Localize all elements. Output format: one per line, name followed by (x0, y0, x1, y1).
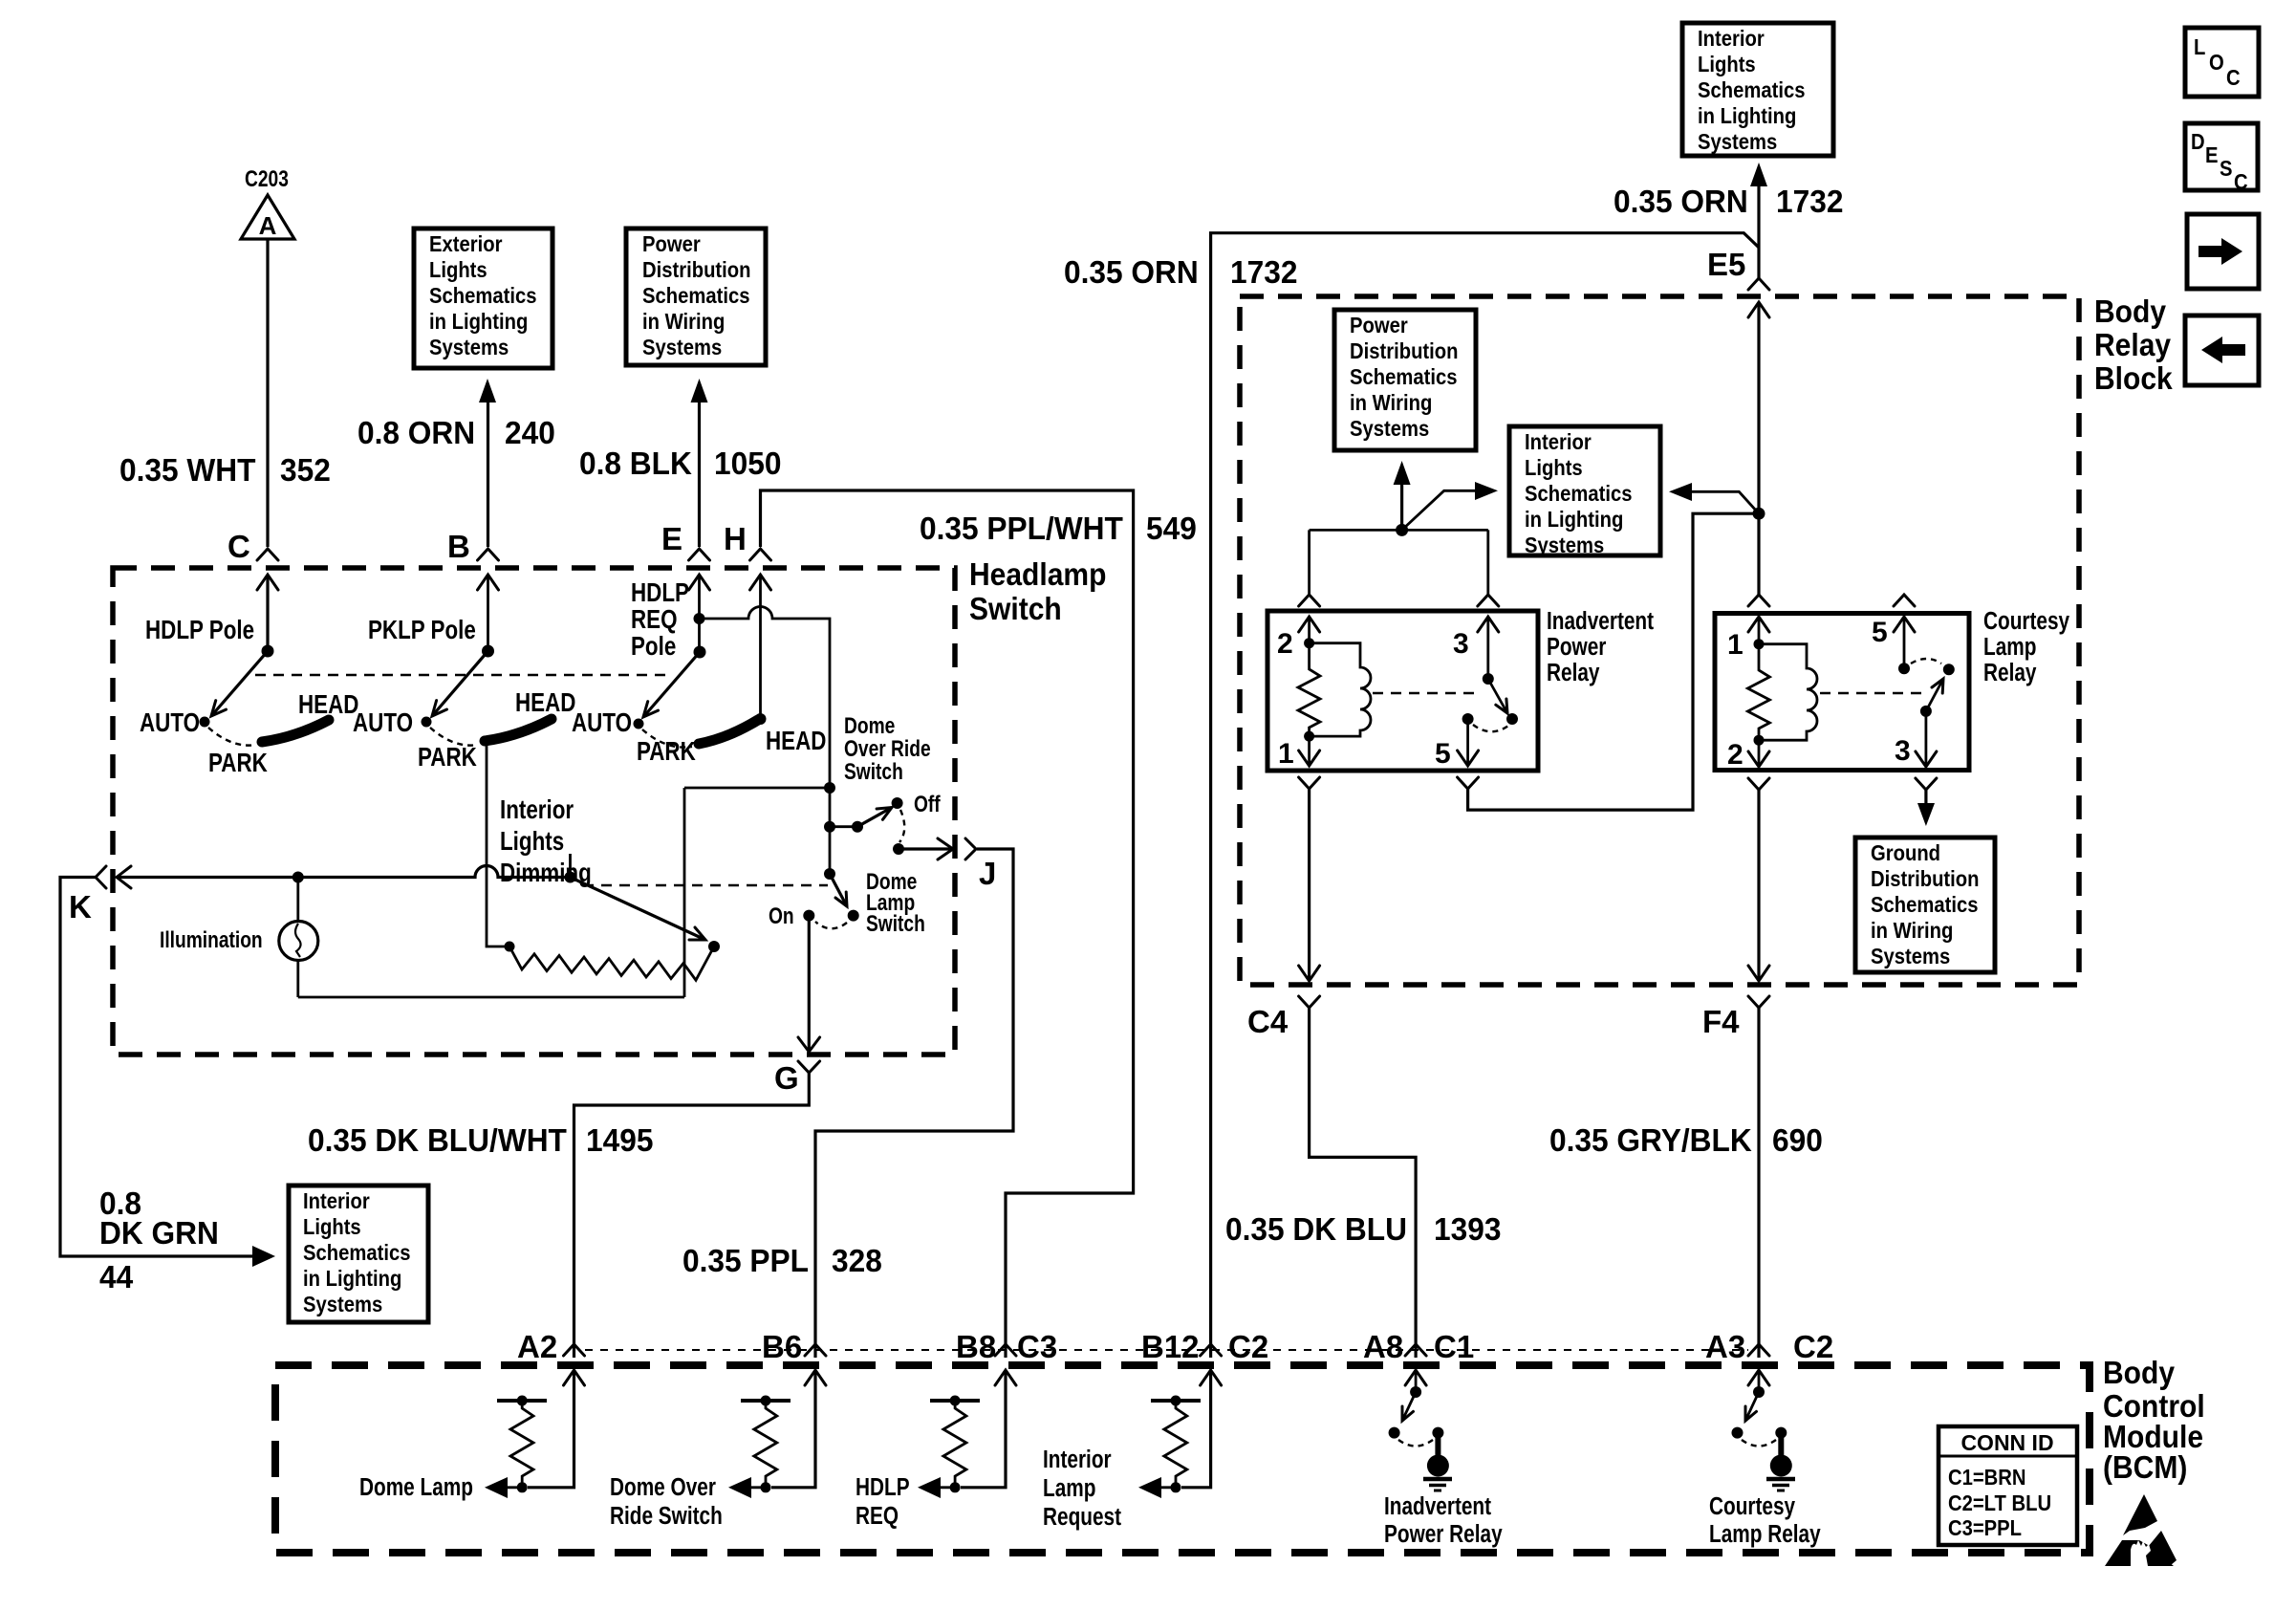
right arrow box (2187, 214, 2259, 289)
svg-text:Interior: Interior (303, 1188, 370, 1214)
svg-text:Switch: Switch (866, 910, 925, 937)
svg-text:Power: Power (642, 231, 701, 257)
inadvertent driver travel arc (1398, 1440, 1433, 1447)
left arrow box (2185, 315, 2259, 385)
svg-text:0.35 WHT: 0.35 WHT (119, 452, 256, 488)
svg-text:B6: B6 (762, 1329, 802, 1364)
wire branch arrow to middle interior lights box (1402, 482, 1498, 530)
label 1495 (586, 1122, 653, 1158)
svg-text:Distribution: Distribution (1350, 338, 1459, 364)
label 0.8 DK GRN 44 (99, 1186, 219, 1295)
wire G to A2 (574, 1073, 810, 1358)
resistor dome over ride input (741, 1396, 791, 1493)
svg-text:E: E (661, 521, 682, 556)
body control module dashed box (275, 1365, 2090, 1553)
node J chevron (965, 838, 996, 891)
wire E5 into block (1748, 302, 1769, 513)
svg-text:Power: Power (1350, 313, 1408, 338)
illumination lamp (279, 878, 318, 998)
arrow to Power Distribution box (in block) (1394, 461, 1411, 530)
dimmer wiper junction node (565, 854, 576, 883)
svg-text:Body: Body (2094, 294, 2166, 330)
svg-text:C: C (2226, 65, 2241, 91)
svg-text:0.35 PPL/WHT: 0.35 PPL/WHT (920, 511, 1123, 546)
BCM connector row dashed (585, 1349, 1748, 1351)
inadvertent driver arrow (1402, 1392, 1416, 1421)
svg-text:Lamp: Lamp (1043, 1474, 1095, 1502)
svg-text:Lights: Lights (500, 827, 564, 857)
relay pin 5 contact (1462, 713, 1474, 725)
wire interior lights feed (lamp circuit riser) (298, 788, 830, 997)
wire B12/C2 riser (0.35 ORN 1732) (1211, 233, 1759, 1358)
node dimmer right terminal (708, 941, 720, 952)
label 0.35 WHT (119, 452, 256, 488)
box Power Distribution Schematics in Wiring Systems (626, 228, 766, 365)
svg-text:0.35 GRY/BLK: 0.35 GRY/BLK (1549, 1122, 1752, 1158)
courtesy relay box (1715, 614, 1969, 771)
courtesy pin 5 contact (1898, 663, 1910, 674)
label HEAD (switch 2) (515, 688, 575, 718)
svg-text:C: C (2234, 169, 2248, 195)
label Courtesy Lamp Relay (1983, 607, 2069, 686)
svg-text:240: 240 (505, 415, 555, 450)
inadvertent power relay box (1267, 611, 1538, 771)
PKLP lever (HEAD position) (485, 719, 552, 741)
wire On contact to G (798, 916, 820, 1052)
label Inadvertent Power Relay (1384, 1492, 1503, 1548)
svg-text:0.35 DK BLU/WHT: 0.35 DK BLU/WHT (308, 1122, 567, 1158)
wire F4 to A3/C2 (1757, 1008, 1760, 1358)
label Courtesy Lamp Relay (1709, 1492, 1821, 1548)
label PARK (switch 3) (637, 737, 696, 767)
label 0.35 ORN (left) (1064, 254, 1199, 290)
label 240 (505, 415, 555, 450)
node C4 chevron (1247, 996, 1320, 1039)
node E branch (694, 613, 705, 624)
wire H to HEAD contact (750, 575, 771, 725)
label 0.8 BLK (579, 446, 693, 481)
connector C203 label (245, 165, 289, 192)
box Interior Lights Schematics in Lighting Systems (lower left) (289, 1186, 428, 1322)
relay actuation dashed link (1373, 692, 1478, 694)
label PKLP Pole (368, 616, 476, 645)
svg-text:A2: A2 (517, 1329, 557, 1364)
svg-text:Power Relay: Power Relay (1384, 1520, 1503, 1548)
node E5/F4 junction (1753, 508, 1765, 520)
label PARK (switch 1) (208, 749, 268, 778)
svg-text:Lights: Lights (1525, 455, 1583, 481)
wire K bus (illumination feed) (117, 866, 571, 889)
box Power Distribution Schematics in Wiring Systems (in block) (1334, 310, 1476, 450)
relay pin 2 entry (1277, 617, 1320, 660)
node A3/C2 (1705, 1329, 1833, 1364)
label Body Relay Block (2094, 294, 2173, 397)
dimming rheostat zigzag (509, 946, 714, 980)
courtesy pin 2 exit (1727, 739, 1769, 771)
wire E5 riser (0.35 ORN 1732) (1757, 184, 1760, 278)
svg-text:in Lighting: in Lighting (1525, 507, 1623, 533)
svg-text:Schematics: Schematics (642, 283, 749, 309)
svg-text:Interior: Interior (1525, 429, 1592, 455)
label Dome Over Ride Switch (844, 712, 931, 785)
relay pin 2 chevron (1299, 595, 1320, 606)
label 0.35 DK BLU (1225, 1211, 1407, 1247)
svg-text:C1=BRN: C1=BRN (1948, 1465, 2026, 1490)
relay pin 1 chevron (1299, 777, 1320, 789)
svg-text:Schematics: Schematics (1698, 77, 1805, 103)
svg-text:Ground: Ground (1871, 840, 1940, 866)
svg-text:3: 3 (1895, 735, 1911, 767)
courtesy pin 3 exit (1895, 711, 1937, 767)
svg-text:Inadvertent: Inadvertent (1547, 607, 1654, 635)
dome lamp switch door contact (848, 910, 859, 922)
node B12/C2 (1141, 1329, 1268, 1364)
svg-text:Schematics: Schematics (303, 1240, 410, 1266)
wire B12/C2 to interior lamp request input (1181, 1370, 1222, 1488)
courtesy pin 2 chevron (1748, 778, 1769, 790)
PKLP pole wiper arrow (432, 651, 488, 716)
label HEAD (switch 1) (298, 690, 358, 720)
box Interior Lights Schematics in Lighting Systems (middle) (1509, 426, 1660, 557)
wire relay coil feed branch (1310, 530, 1488, 595)
svg-text:HEAD: HEAD (515, 688, 575, 718)
svg-text:Systems: Systems (1698, 129, 1777, 155)
arrow to HDLP REQ (918, 1477, 955, 1498)
svg-text:Systems: Systems (429, 335, 509, 360)
arrow to Interior Lamp Request (1138, 1477, 1176, 1498)
svg-text:Systems: Systems (1525, 533, 1604, 558)
wire E entering switch (689, 575, 710, 652)
relay coil bottom node (1304, 731, 1314, 742)
svg-text:1: 1 (1727, 629, 1744, 661)
svg-text:Headlamp: Headlamp (969, 556, 1106, 593)
HDLP travel arc (208, 728, 256, 746)
svg-text:REQ: REQ (631, 605, 678, 635)
svg-text:Systems: Systems (303, 1292, 382, 1317)
dome lamp switch pivot node (824, 868, 835, 880)
svg-text:PARK: PARK (418, 743, 477, 772)
svg-text:Body: Body (2103, 1355, 2175, 1391)
courtesy coil (1759, 644, 1817, 741)
wire pin 5 to E5/F4 junction (1468, 513, 1759, 810)
svg-text:L: L (2194, 34, 2205, 60)
svg-text:Distribution: Distribution (1871, 866, 1980, 892)
svg-text:PKLP Pole: PKLP Pole (368, 616, 476, 645)
wire H riser and top run (0.35 PPL/WHT 549) (761, 490, 1134, 1358)
svg-text:REQ: REQ (856, 1502, 899, 1530)
svg-text:2: 2 (1277, 628, 1293, 660)
svg-text:Courtesy: Courtesy (1709, 1492, 1795, 1520)
svg-text:1050: 1050 (714, 446, 781, 481)
svg-text:C1: C1 (1434, 1329, 1474, 1364)
dome over ride Off contact (892, 791, 942, 817)
label Inadvertent Power Relay (1547, 607, 1654, 686)
svg-text:5: 5 (1435, 738, 1451, 770)
label 0.35 GRY/BLK (1549, 1122, 1752, 1158)
arrow to Dome Lamp (485, 1477, 522, 1498)
svg-text:Lights: Lights (429, 257, 487, 283)
svg-text:Interior: Interior (500, 795, 574, 825)
node dimmer left terminal (505, 942, 515, 952)
svg-text:B8: B8 (956, 1329, 996, 1364)
svg-text:Lamp: Lamp (1983, 633, 2036, 661)
svg-text:0.35 DK BLU: 0.35 DK BLU (1225, 1211, 1407, 1247)
svg-text:44: 44 (99, 1259, 133, 1295)
courtesy contact travel arc (1911, 659, 1941, 664)
relay moving contact (1506, 713, 1518, 725)
dimmer wiper arrow (571, 878, 706, 941)
svg-text:A3: A3 (1705, 1329, 1745, 1364)
svg-text:O: O (2209, 50, 2224, 76)
svg-text:Relay: Relay (2094, 327, 2172, 363)
wire branch to middle interior lights box (1669, 483, 1759, 513)
wire A8/C1 into BCM (1405, 1370, 1426, 1392)
box Exterior Lights Schematics in Lighting Systems (414, 228, 552, 368)
label HDLP Pole (145, 616, 254, 645)
svg-text:PARK: PARK (208, 749, 268, 778)
svg-text:0.35 PPL: 0.35 PPL (682, 1243, 809, 1278)
HDLP REQ pole wiper arrow (643, 652, 700, 717)
svg-text:690: 690 (1772, 1122, 1823, 1158)
svg-text:AUTO: AUTO (353, 708, 413, 738)
node G chevron (774, 1060, 820, 1096)
label 352 (280, 452, 331, 488)
svg-text:HEAD: HEAD (766, 727, 826, 756)
svg-text:Request: Request (1043, 1503, 1121, 1531)
LOC box (2185, 28, 2259, 97)
relay resistor (1298, 643, 1320, 736)
svg-text:HDLP: HDLP (631, 578, 689, 608)
svg-text:Dome Over: Dome Over (610, 1473, 716, 1501)
label Headlamp Switch (969, 556, 1106, 627)
svg-text:Pole: Pole (631, 632, 676, 662)
svg-text:0.35 ORN: 0.35 ORN (1064, 254, 1199, 290)
relay pin 1 exit (1278, 736, 1320, 770)
svg-text:in Lighting: in Lighting (429, 309, 528, 335)
dome over ride output contact (893, 843, 904, 855)
svg-text:AUTO: AUTO (572, 708, 632, 738)
svg-text:(BCM): (BCM) (2103, 1449, 2187, 1486)
courtesy driver output contact and coil post (1766, 1427, 1795, 1490)
courtesy driver left contact (1732, 1427, 1744, 1439)
label Interior Lamp Request (1043, 1446, 1121, 1531)
inadvertent driver left contact (1389, 1427, 1400, 1439)
svg-text:PARK: PARK (637, 737, 696, 767)
relay coil top node (1304, 638, 1314, 648)
svg-text:Exterior: Exterior (429, 231, 503, 257)
label HEAD (switch 3) (766, 727, 826, 756)
svg-text:S: S (2220, 156, 2233, 182)
svg-text:1495: 1495 (586, 1122, 653, 1158)
svg-text:0.8 BLK: 0.8 BLK (579, 446, 693, 481)
courtesy pin 1 chevron (1748, 595, 1769, 606)
courtesy armature arrow (1926, 679, 1943, 711)
svg-text:Block: Block (2094, 360, 2173, 397)
svg-text:0.35 ORN: 0.35 ORN (1614, 184, 1748, 219)
label Illumination (160, 926, 263, 953)
courtesy coil top node (1754, 639, 1765, 649)
svg-text:HDLP Pole: HDLP Pole (145, 616, 254, 645)
svg-text:B12: B12 (1141, 1329, 1200, 1364)
svg-text:1732: 1732 (1776, 184, 1843, 219)
dome over ride wiper arrow (857, 808, 892, 827)
node H chevron (724, 521, 771, 560)
wire A2 to dome lamp input (528, 1370, 585, 1488)
inadvertent driver output contact and coil post (1423, 1427, 1452, 1490)
wire E vertical (0.8 BLK 1050) (698, 400, 701, 547)
wire K external to interior lights box (60, 878, 275, 1268)
wire inadvertent pin 1 to C4 (1299, 789, 1320, 981)
svg-text:Distribution: Distribution (642, 257, 751, 283)
svg-text:in Wiring: in Wiring (1350, 390, 1432, 416)
body relay block dashed box (1240, 296, 2079, 985)
courtesy pin 5 entry (1872, 617, 1915, 668)
relay armature pivot (1483, 673, 1494, 685)
dome lamp switch wiper arrow (830, 874, 847, 906)
connector A triangle (241, 195, 294, 240)
courtesy armature pivot (1920, 706, 1932, 717)
svg-text:328: 328 (832, 1243, 882, 1278)
svg-text:Relay: Relay (1547, 659, 1599, 686)
svg-text:C2=LT BLU: C2=LT BLU (1948, 1490, 2051, 1516)
label 1050 (714, 446, 781, 481)
arrow pin 3 to ground distribution box (1917, 790, 1935, 826)
wire PKLP lever output to dimmer (487, 740, 509, 946)
dimming linkage dashed (583, 884, 828, 886)
dome lamp travel arc (815, 922, 847, 928)
svg-text:Schematics: Schematics (1525, 481, 1632, 507)
svg-text:G: G (774, 1060, 799, 1096)
svg-text:Illumination: Illumination (160, 926, 263, 953)
svg-text:0.8 ORN: 0.8 ORN (357, 415, 475, 450)
label HDLP REQ (856, 1473, 910, 1530)
svg-text:E5: E5 (1707, 247, 1745, 282)
wire dome over ride output to J (899, 838, 953, 859)
courtesy actuation dashed link (1820, 692, 1921, 694)
svg-text:C: C (227, 529, 250, 564)
svg-text:A: A (259, 211, 277, 240)
label 0.35 PPL (682, 1243, 809, 1278)
svg-text:Inadvertent: Inadvertent (1384, 1492, 1491, 1520)
PKLP pole node (482, 645, 494, 658)
relay coil (1310, 643, 1371, 736)
svg-text:B: B (447, 529, 470, 564)
svg-text:HDLP: HDLP (856, 1473, 910, 1501)
resistor interior lamp request input (1151, 1396, 1201, 1493)
resistor dome lamp input (497, 1396, 547, 1493)
label Dome Over Ride Switch (610, 1473, 723, 1530)
node A2 (517, 1329, 585, 1364)
svg-text:AUTO: AUTO (140, 708, 200, 738)
svg-text:Ride Switch: Ride Switch (610, 1502, 723, 1530)
relay contact travel arc (1473, 725, 1508, 731)
svg-text:C4: C4 (1247, 1004, 1289, 1039)
headlamp switch dashed box (113, 568, 955, 1055)
courtesy driver pivot (1753, 1386, 1765, 1398)
wire A3/C2 into BCM (1748, 1370, 1769, 1392)
box Interior Lights Schematics in Lighting Systems (top) (1682, 23, 1833, 156)
svg-text:Dimming: Dimming (500, 859, 592, 888)
PKLP travel arc (430, 728, 478, 746)
wire E branch to dome circuits (with hop over H) (700, 607, 831, 875)
wire B entering switch (478, 575, 499, 651)
label Dome Lamp Switch (866, 868, 925, 937)
label 1732 (right) (1776, 184, 1843, 219)
node relay feed junction (1396, 524, 1408, 536)
courtesy coil bottom node (1754, 735, 1765, 746)
svg-text:E: E (2205, 142, 2219, 168)
label HDLP REQ Pole (631, 578, 689, 662)
svg-text:Systems: Systems (1871, 944, 1950, 969)
CONN ID table (1939, 1426, 2077, 1545)
svg-text:Off: Off (914, 791, 941, 817)
node F4 chevron (1702, 996, 1769, 1039)
svg-text:in Wiring: in Wiring (642, 309, 725, 335)
svg-text:in Lighting: in Lighting (303, 1266, 401, 1292)
relay armature arrow (1488, 679, 1507, 713)
wire E5/F4 down to courtesy relay (1757, 513, 1760, 595)
svg-text:in Lighting: in Lighting (1698, 103, 1796, 129)
label 1393 (1434, 1211, 1501, 1247)
svg-text:Relay: Relay (1983, 659, 2036, 686)
relay pin 3 entry (1453, 617, 1499, 679)
wire C entering switch (257, 575, 278, 651)
DESC box (2185, 123, 2258, 194)
HDLP REQ AUTO contact (572, 708, 644, 738)
courtesy pin 1 entry (1727, 617, 1769, 661)
svg-text:A8: A8 (1363, 1329, 1403, 1364)
courtesy pin 3 chevron (1916, 778, 1937, 790)
svg-text:Schematics: Schematics (429, 283, 536, 309)
label Dome Lamp (359, 1473, 473, 1501)
arrow to Power Distribution box (691, 379, 708, 402)
node A8/C1 (1363, 1329, 1474, 1364)
svg-text:1: 1 (1278, 738, 1294, 770)
relay pin 5 exit (1435, 719, 1479, 770)
svg-text:Lights: Lights (303, 1214, 361, 1240)
wire C vertical (0.35 WHT 352) (266, 239, 269, 547)
svg-text:C203: C203 (245, 165, 289, 192)
svg-text:Courtesy: Courtesy (1983, 607, 2069, 635)
arrow to top Interior Lights box (1750, 163, 1767, 186)
dome lamp On contact (769, 903, 814, 929)
svg-text:Lights: Lights (1698, 52, 1756, 77)
wire B6 to dome over ride input (771, 1370, 826, 1488)
svg-text:DK GRN: DK GRN (99, 1215, 219, 1251)
box Ground Distribution Schematics in Wiring Systems (1855, 838, 1995, 972)
courtesy driver travel arc (1742, 1440, 1776, 1447)
node B6 (762, 1329, 826, 1364)
wire C4 to A8/C1 (1310, 1008, 1417, 1358)
svg-text:Schematics: Schematics (1350, 364, 1457, 390)
node illumination tap (292, 872, 304, 883)
svg-text:CONN ID: CONN ID (1960, 1430, 2053, 1455)
svg-text:HEAD: HEAD (298, 690, 358, 720)
node B8/C3 (956, 1329, 1057, 1364)
arrow to Dome Over Ride Switch (728, 1477, 766, 1498)
svg-text:H: H (724, 521, 747, 556)
svg-text:1732: 1732 (1230, 254, 1297, 290)
label 0.8 ORN (357, 415, 475, 450)
node E5 chevron (1707, 247, 1769, 290)
node B chevron (447, 529, 499, 564)
svg-text:Switch: Switch (969, 591, 1062, 627)
relay pin 3 chevron (1478, 595, 1499, 606)
svg-text:C2: C2 (1228, 1329, 1268, 1364)
courtesy pin 5 chevron (1894, 595, 1915, 606)
svg-text:Interior: Interior (1043, 1446, 1112, 1473)
svg-text:C3=PPL: C3=PPL (1948, 1515, 2022, 1541)
